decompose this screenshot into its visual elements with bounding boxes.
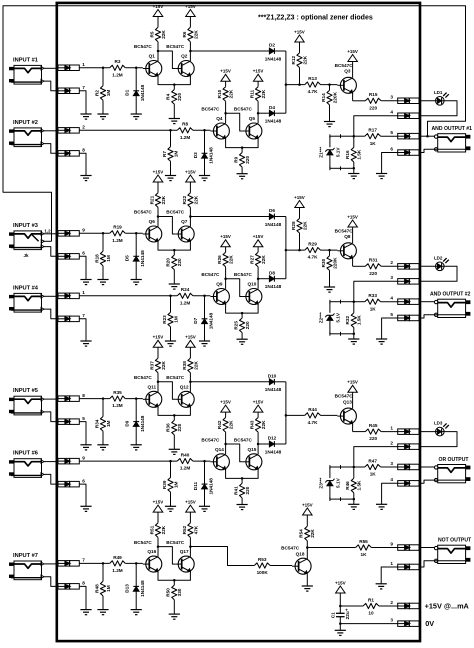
- wire jack1 tip to pin: [44, 398, 58, 400]
- svg-text:2: 2: [390, 440, 393, 445]
- svg-text:Q4: Q4: [216, 116, 223, 121]
- junction: [285, 249, 288, 252]
- +15V: [185, 4, 196, 27]
- svg-text:220: 220: [245, 156, 250, 164]
- wire +15V to node: [339, 593, 341, 606]
- svg-text:1N4148: 1N4148: [265, 284, 282, 289]
- svg-text:R43: R43: [250, 420, 255, 429]
- bracket: [330, 465, 341, 469]
- ground: [199, 341, 210, 346]
- junction: [257, 277, 260, 280]
- transistor Q17: [166, 540, 194, 572]
- wire input row 2: [79, 295, 177, 297]
- svg-text:1,2: 1,2: [44, 229, 51, 234]
- wire pin to LED: [419, 100, 435, 102]
- ground: [302, 586, 313, 591]
- wire collector Q to base Q: [158, 217, 175, 235]
- svg-text:220: 220: [177, 423, 182, 431]
- transistor Q6: [134, 210, 162, 242]
- resistor R30 220K: [321, 250, 338, 270]
- svg-text:R26: R26: [217, 255, 222, 264]
- svg-text:3: 3: [390, 461, 393, 466]
- svg-text:D12: D12: [268, 436, 277, 441]
- svg-text:BC547C: BC547C: [166, 210, 185, 215]
- svg-text:+15V: +15V: [347, 49, 358, 54]
- svg-text:INPUT #2: INPUT #2: [13, 120, 38, 126]
- svg-text:INPUT #6: INPUT #6: [13, 451, 38, 457]
- svg-text:1K: 1K: [370, 141, 377, 146]
- svg-text:R27: R27: [250, 255, 255, 264]
- connector pin 1: [58, 290, 85, 299]
- wire collector: [257, 113, 259, 123]
- svg-text:D11: D11: [193, 482, 198, 491]
- wire pin to LED: [419, 265, 435, 267]
- wire pin to LED: [419, 431, 435, 433]
- wire collector to diode: [190, 216, 269, 218]
- wire junction column: [285, 217, 287, 279]
- svg-text:6: 6: [82, 478, 85, 483]
- resistor R33 1K: [354, 293, 398, 311]
- svg-text:R29: R29: [308, 242, 317, 247]
- wire normalling loop: [3, 6, 466, 242]
- wire collector: [189, 382, 191, 392]
- connector pin 4: [390, 477, 419, 486]
- svg-text:OR OUTPUT: OR OUTPUT: [439, 457, 470, 463]
- ground: [376, 174, 387, 179]
- svg-text:Q9: Q9: [216, 282, 223, 287]
- connector pin 4: [390, 110, 419, 119]
- svg-text:220: 220: [369, 105, 377, 110]
- junction: [257, 112, 260, 115]
- wire Q18 emitter: [306, 574, 308, 586]
- svg-text:220: 220: [369, 271, 377, 276]
- connector pin 3: [390, 275, 419, 284]
- svg-text:R51: R51: [149, 525, 154, 534]
- resistor R54 22K: [299, 526, 316, 541]
- svg-text:1N4148: 1N4148: [140, 84, 145, 101]
- svg-text:D5: D5: [125, 255, 130, 261]
- svg-text:5: 5: [390, 130, 393, 135]
- svg-text:Q13: Q13: [343, 400, 352, 405]
- connector pin 7: [58, 558, 85, 567]
- svg-text:BC547C: BC547C: [166, 44, 185, 49]
- wire pin6 inside to ground: [382, 153, 398, 174]
- wire R54 to collector: [306, 541, 308, 548]
- jack normal contact: [23, 229, 51, 259]
- wire junction column: [285, 382, 287, 444]
- resistor R8 1.2M: [177, 122, 193, 140]
- resistor R39 1M: [162, 461, 179, 492]
- svg-text:22K: 22K: [161, 30, 166, 39]
- output jack AND OUTPUT #1: [432, 126, 473, 152]
- +15V collector: [347, 380, 358, 393]
- junction: [203, 129, 206, 132]
- resistor R29 4.7K: [305, 242, 321, 260]
- transistor Q3: [335, 63, 357, 93]
- svg-text:R53: R53: [258, 557, 267, 562]
- wire collector Q to base Q: [158, 382, 175, 400]
- wire diode to column: [275, 381, 286, 383]
- svg-text:1N4148: 1N4148: [208, 312, 213, 329]
- svg-text:R8: R8: [182, 122, 188, 127]
- wire collector: [306, 548, 308, 560]
- svg-text:R45: R45: [369, 423, 378, 428]
- resistor R9 220: [234, 148, 251, 168]
- wire node to R1: [340, 605, 363, 607]
- wire row1 to base: [125, 562, 143, 564]
- svg-text:+15V: +15V: [220, 234, 231, 239]
- transistor Q7: [166, 210, 194, 242]
- ground: [165, 161, 176, 180]
- svg-text:1M: 1M: [173, 151, 178, 158]
- svg-text:R12: R12: [291, 56, 296, 65]
- junction: [135, 67, 138, 70]
- svg-text:+15V: +15V: [347, 380, 358, 385]
- bracket: [330, 497, 341, 501]
- wire jack1 sleeve: [44, 247, 58, 257]
- junction: [135, 232, 138, 235]
- svg-text:BC547C: BC547C: [234, 438, 253, 443]
- svg-text:1N4148: 1N4148: [208, 478, 213, 495]
- svg-text:Q15: Q15: [247, 447, 256, 452]
- wire to R55: [307, 547, 355, 549]
- diode D9 1N4148: [125, 399, 146, 445]
- resistor R17 1K: [354, 128, 398, 146]
- svg-text:3: 3: [390, 95, 393, 100]
- svg-text:NOT OUTPUT: NOT OUTPUT: [438, 538, 472, 544]
- svg-text:22K: 22K: [310, 529, 315, 538]
- svg-text:D10: D10: [268, 373, 277, 378]
- resistor R38 22K: [182, 358, 199, 382]
- svg-text:1K: 1K: [370, 306, 377, 311]
- connector pin 3: [390, 95, 419, 104]
- connector pin 9: [390, 541, 419, 550]
- transistor Q13: [335, 394, 357, 424]
- junction: [224, 443, 227, 446]
- resistor R52 47K: [182, 523, 199, 547]
- svg-text:9: 9: [82, 228, 85, 233]
- svg-text:R39: R39: [162, 480, 167, 489]
- svg-text:+15V: +15V: [153, 4, 164, 9]
- svg-text:D7: D7: [193, 317, 198, 323]
- svg-text:Q5: Q5: [249, 116, 256, 121]
- wire jack2 tip to pin: [44, 461, 58, 463]
- ground: [165, 492, 176, 511]
- connector pin 3: [390, 461, 419, 470]
- note optional zeners: [258, 15, 373, 22]
- svg-text:INPUT #3: INPUT #3: [13, 223, 38, 229]
- svg-text:1N4148: 1N4148: [265, 387, 282, 392]
- output jack NOT OUTPUT: [434, 538, 472, 564]
- wire pin sleeve to ground: [79, 319, 86, 341]
- svg-text:22K: 22K: [302, 55, 307, 64]
- wire jack sleeve to pin1: [419, 561, 438, 567]
- svg-text:Q7: Q7: [181, 219, 188, 224]
- junction: [157, 215, 160, 218]
- wire collector to +15V: [352, 62, 354, 78]
- wire to bracket: [341, 333, 354, 335]
- resistor R20 220: [166, 250, 183, 270]
- svg-text:8: 8: [82, 393, 85, 398]
- svg-text:BC547C: BC547C: [281, 545, 300, 550]
- svg-text:220: 220: [369, 436, 377, 441]
- connector pin 6: [58, 251, 85, 260]
- svg-text:+15V: +15V: [220, 399, 231, 404]
- svg-text:6: 6: [82, 251, 85, 256]
- svg-text:BC547C: BC547C: [335, 228, 354, 233]
- wire junction to zener bracket: [341, 301, 354, 303]
- LED LD2: [434, 255, 449, 270]
- ground: [80, 280, 91, 285]
- resistor R4 220: [166, 85, 183, 105]
- junction: [339, 605, 342, 608]
- wire jack sleeve to pin6: [419, 315, 438, 318]
- junction: [102, 562, 105, 565]
- svg-text:BC547C: BC547C: [134, 540, 153, 545]
- ground: [237, 167, 248, 179]
- ground: [131, 114, 142, 119]
- svg-text:Q1: Q1: [149, 54, 156, 59]
- wire to bracket: [341, 498, 354, 500]
- svg-text:+15V: +15V: [335, 580, 346, 585]
- connector pin 9: [58, 455, 85, 464]
- ground: [376, 504, 387, 509]
- svg-text:1: 1: [390, 425, 393, 430]
- svg-text:R25: R25: [234, 321, 239, 330]
- wire jack2 tip to pin: [44, 130, 58, 132]
- +15V: [253, 234, 264, 247]
- svg-text:1: 1: [82, 62, 85, 67]
- junction: [173, 83, 176, 86]
- wire diode to column: [275, 216, 286, 218]
- svg-text:+15V: +15V: [253, 399, 264, 404]
- ground: [80, 506, 91, 511]
- wire junction to zener bracket: [341, 466, 354, 468]
- diode D8 1N4148: [265, 270, 282, 289]
- resistor R32 1.5K: [345, 302, 362, 334]
- svg-text:R42: R42: [217, 420, 222, 429]
- svg-text:R24: R24: [181, 287, 190, 292]
- svg-text:BC547C: BC547C: [234, 107, 253, 112]
- diode D2 1N4148: [265, 43, 282, 62]
- svg-text:LD3: LD3: [434, 421, 443, 426]
- svg-text:+: +: [345, 608, 348, 613]
- ground: [131, 610, 142, 615]
- junction: [169, 129, 172, 132]
- diode D3 1N4148: [193, 130, 214, 175]
- svg-text:+15V: +15V: [220, 69, 231, 74]
- +15V: [253, 69, 264, 82]
- svg-text:1.2M: 1.2M: [180, 300, 191, 305]
- resistor R2 1M: [94, 68, 111, 101]
- transistor Q15: [234, 438, 262, 470]
- svg-text:BC547C: BC547C: [234, 272, 253, 277]
- svg-text:R20: R20: [166, 258, 171, 267]
- svg-text:5.1V: 5.1V: [336, 477, 341, 488]
- bracket: [330, 332, 341, 336]
- ground: [169, 435, 180, 455]
- wire jack1 sleeve: [44, 412, 58, 422]
- wire collector Q to base Q: [158, 547, 175, 565]
- svg-text:R15: R15: [369, 92, 378, 97]
- resistor R15 220: [365, 92, 381, 110]
- svg-text:1.5K: 1.5K: [357, 480, 362, 491]
- +15V: [220, 399, 231, 412]
- svg-text:22K: 22K: [193, 360, 198, 369]
- svg-text:22K: 22K: [261, 255, 266, 264]
- wire emitters pair2: [226, 469, 259, 478]
- transistor Q8: [335, 228, 357, 258]
- svg-text:BC547C: BC547C: [335, 394, 354, 399]
- resistor R7 1M: [162, 130, 179, 161]
- wire emitters pair1: [158, 407, 190, 416]
- svg-text:R21: R21: [149, 195, 154, 204]
- resistor R3 1.2M: [110, 59, 126, 77]
- transistor Q16: [134, 540, 162, 572]
- LED LD3: [434, 421, 449, 436]
- resistor R24 1.2M: [177, 287, 193, 305]
- svg-text:Q18: Q18: [296, 552, 305, 557]
- svg-text:R55: R55: [359, 539, 368, 544]
- junction: [157, 381, 160, 384]
- wire column to R: [286, 414, 305, 416]
- svg-text:R41: R41: [234, 486, 239, 495]
- wire collector to diode 2: [258, 112, 269, 114]
- wire pin1 inside to ground: [381, 567, 398, 584]
- svg-text:1K: 1K: [370, 472, 377, 477]
- svg-text:1.5K: 1.5K: [357, 315, 362, 326]
- wire emitters pair1: [158, 76, 190, 85]
- svg-text:R16: R16: [345, 150, 350, 159]
- svg-text:BC547C: BC547C: [134, 210, 153, 215]
- svg-text:1M: 1M: [106, 90, 111, 97]
- junction: [169, 460, 172, 463]
- wire collector to diode 2: [258, 443, 269, 445]
- svg-text:4.7K: 4.7K: [308, 89, 319, 94]
- svg-text:7: 7: [82, 85, 85, 90]
- resistor R41 220: [234, 478, 251, 498]
- wire junction to zener bracket: [341, 135, 354, 137]
- wire R to base: [320, 249, 337, 251]
- +15V: [185, 335, 196, 359]
- junction: [157, 50, 160, 53]
- svg-text:Jk: Jk: [23, 253, 29, 258]
- label +15V supply: [425, 601, 470, 610]
- junction: [224, 277, 227, 280]
- wire pin9 to jack: [419, 547, 434, 549]
- svg-text:+15V: +15V: [347, 214, 358, 219]
- svg-text:1N4148: 1N4148: [140, 415, 145, 432]
- svg-text:R34: R34: [94, 419, 99, 428]
- svg-text:Q17: Q17: [180, 549, 189, 554]
- resistor R12 22K: [291, 42, 308, 85]
- wire pin4 inside: [354, 281, 398, 301]
- wire diode 2 to column: [275, 112, 286, 114]
- junction: [298, 249, 301, 252]
- wire R to pin: [381, 265, 398, 267]
- wire input row 2: [79, 460, 177, 462]
- svg-text:R22: R22: [182, 195, 187, 204]
- junction: [285, 414, 288, 417]
- svg-text:5: 5: [82, 416, 85, 421]
- svg-text:***Z1,Z2,Z3 : optional zener d: ***Z1,Z2,Z3 : optional zener diodes: [258, 15, 373, 22]
- input jack J-IN1: [9, 57, 44, 84]
- svg-text:R1: R1: [368, 597, 374, 602]
- wire emitter: [353, 424, 366, 432]
- +15V: [220, 234, 231, 247]
- junction: [257, 443, 260, 446]
- resistor R16 1.5K: [345, 136, 362, 168]
- ground: [324, 270, 335, 292]
- svg-text:+15V: +15V: [185, 499, 196, 504]
- wire pin6 inside to ground: [382, 318, 398, 339]
- diode D7 1N4148: [193, 296, 214, 341]
- junction: [224, 112, 227, 115]
- svg-text:R2: R2: [94, 90, 99, 96]
- svg-text:22K: 22K: [193, 30, 198, 39]
- junction: [306, 546, 309, 549]
- input jack J-IN4: [9, 285, 44, 312]
- svg-text:220: 220: [245, 321, 250, 329]
- resistor R40 1.2M: [177, 453, 193, 471]
- svg-text:R18: R18: [94, 254, 99, 263]
- svg-text:330: 330: [177, 588, 182, 596]
- junction: [241, 477, 244, 480]
- wire input row 1: [79, 398, 109, 400]
- connector pin 2: [58, 125, 85, 134]
- ground: [324, 105, 335, 127]
- resistor R37 22K: [149, 358, 166, 382]
- resistor R13 4.7K: [305, 76, 321, 94]
- svg-text:+15V: +15V: [302, 502, 313, 507]
- resistor R35 1.2M: [110, 390, 126, 408]
- ground: [80, 114, 91, 119]
- svg-text:1N4148: 1N4148: [140, 250, 145, 267]
- svg-text:7: 7: [82, 313, 85, 318]
- resistor R47 1K: [354, 458, 398, 476]
- wire jack2 sleeve: [44, 309, 58, 319]
- junction: [241, 146, 244, 149]
- wire jack1 tip to pin: [44, 233, 58, 235]
- junction normalling: [426, 135, 429, 138]
- svg-text:5.1V: 5.1V: [336, 147, 341, 158]
- connector pin 7: [58, 313, 85, 322]
- wire collector: [189, 547, 191, 557]
- diode D13 1N4148: [125, 563, 146, 609]
- svg-text:5.1V: 5.1V: [336, 312, 341, 323]
- transistor Q10: [234, 272, 262, 304]
- svg-text:4: 4: [390, 110, 393, 115]
- svg-text:10: 10: [368, 611, 374, 616]
- wire pin sleeve to ground: [79, 484, 86, 506]
- resistor R34 1M: [94, 399, 111, 432]
- resistor R22 22K: [182, 193, 199, 217]
- svg-text:1M: 1M: [106, 255, 111, 262]
- svg-text:R52: R52: [182, 525, 187, 534]
- junction: [353, 466, 356, 469]
- wire collector: [189, 217, 191, 227]
- wire R to pin: [381, 100, 398, 102]
- svg-text:+15V: +15V: [253, 69, 264, 74]
- input jack J-IN7: [9, 553, 44, 580]
- junction: [353, 300, 356, 303]
- svg-text:R30: R30: [321, 258, 326, 267]
- +15V collector: [347, 214, 358, 227]
- connector pin 8: [58, 148, 85, 157]
- wire collector: [257, 444, 259, 454]
- wire pin6 inside to ground: [382, 483, 398, 504]
- svg-text:1N4148: 1N4148: [265, 222, 282, 227]
